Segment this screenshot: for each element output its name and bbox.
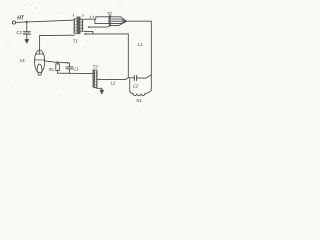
svg-text:C2: C2 <box>16 30 22 35</box>
svg-text:N1: N1 <box>136 98 141 103</box>
node dot grid wire C1 <box>66 62 68 64</box>
svg-text:T1: T1 <box>73 38 78 43</box>
wire L2 <box>98 78 129 80</box>
transformer T3 core <box>94 70 96 88</box>
valve V1 envelope <box>35 50 45 73</box>
resistor R1 <box>56 62 60 73</box>
wire T2 output around right side <box>127 21 152 90</box>
capacitor C1 <box>66 63 73 73</box>
terminal tick S <box>82 14 84 16</box>
node junction dot C2 tap <box>26 21 28 23</box>
node dot grid wire R1 <box>57 61 59 63</box>
anode bar <box>36 53 44 55</box>
wire to T2 line4 <box>89 26 111 27</box>
coil N1 <box>133 94 145 96</box>
wire C2 to earth arrow <box>26 35 28 41</box>
wire coil right connection <box>145 90 151 93</box>
grid lead wire to R1 C1 <box>45 61 70 63</box>
wire coil left drop <box>130 78 133 94</box>
wire anode line to L1 corner <box>85 34 129 78</box>
transformer T1 primary winding <box>74 19 75 34</box>
capacitor C2 output <box>134 76 136 81</box>
transformer T1 secondary winding <box>81 19 83 31</box>
wire T1 secondary top to T2 <box>84 17 110 19</box>
filament <box>37 64 42 71</box>
transformer T3 primary bar <box>92 70 94 87</box>
earth arrow T3 <box>100 90 104 94</box>
svg-text:C1: C1 <box>73 66 78 71</box>
transformer T1 core <box>77 17 81 34</box>
envelope pinch loop <box>38 72 42 75</box>
transformer T3 winding <box>96 70 97 87</box>
anode lead wire <box>40 35 75 54</box>
capacitor C2 <box>24 32 31 34</box>
T2 wedge tip <box>124 20 127 23</box>
node dot anode line <box>85 33 87 35</box>
wire R1 C1 bottom to T3 <box>58 72 94 74</box>
node dot T2 line4 feed <box>88 26 90 28</box>
svg-text:L1: L1 <box>138 42 143 47</box>
transformer T2 line 4 <box>109 21 126 23</box>
grid (dashed) <box>35 59 44 61</box>
terminal tick b <box>92 16 94 18</box>
svg-text:C2: C2 <box>133 84 139 89</box>
wire HT to T1 primary top <box>16 20 75 22</box>
wire T3 bottom to earth arrow <box>95 88 102 91</box>
earth arrow <box>25 39 29 43</box>
terminal HT <box>12 21 15 24</box>
transformer T2 line 1 <box>109 16 126 21</box>
wire tap to T2 line3 <box>95 19 110 23</box>
svg-text:L2: L2 <box>111 80 116 85</box>
svg-text:T3: T3 <box>93 64 99 69</box>
wire detector output <box>128 75 151 79</box>
scan noise specks <box>8 4 153 110</box>
svg-text:V1: V1 <box>20 58 26 63</box>
terminal tick a <box>89 16 91 18</box>
svg-text:R1: R1 <box>49 67 54 72</box>
wire C2 branch <box>26 22 28 32</box>
transformer T2 line 3 <box>109 20 127 22</box>
transformer T2 line 5 <box>109 21 126 26</box>
terminal tick P <box>72 14 74 16</box>
transformer T2 line 2 <box>109 18 126 21</box>
wire T1 secondary bottom stub <box>84 31 93 34</box>
svg-text:HT: HT <box>17 16 25 22</box>
